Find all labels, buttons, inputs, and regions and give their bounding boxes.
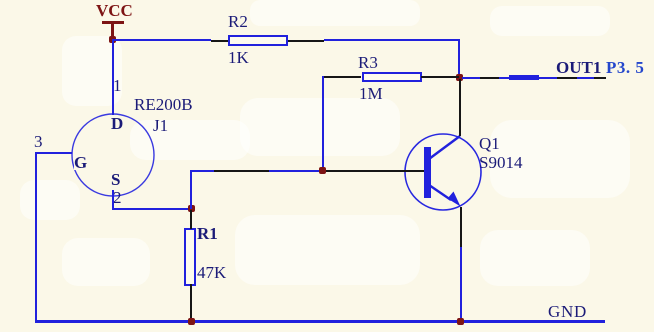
base pin <box>400 170 424 172</box>
wire R1 top pin <box>190 210 192 229</box>
resistor R3 <box>362 72 422 82</box>
label R3 <box>358 55 378 70</box>
wire base segment blue <box>269 170 322 172</box>
wire R3 left down to base node <box>322 76 324 171</box>
pin name S <box>111 172 120 187</box>
pin 2 stub wire (S) <box>112 190 114 209</box>
value 47K <box>197 265 226 280</box>
wire emitter to ground rail <box>460 247 462 323</box>
pin name D <box>111 116 123 131</box>
wire R2 left pin <box>211 40 229 42</box>
label R2 <box>228 14 248 29</box>
wire base segment black to Q1 <box>322 170 424 172</box>
wire VCC node to R2 <box>112 39 211 41</box>
wire down to OUT node <box>458 39 460 78</box>
wire R2 right pin <box>288 40 324 42</box>
junction dot at R1 top node <box>188 205 195 212</box>
wire blue segment under OUT1 <box>577 77 594 79</box>
resistor R2 <box>228 35 288 46</box>
port label OUT1 <box>556 60 601 75</box>
wire blue segment to OUT1 <box>539 77 557 79</box>
wire R1 bottom pin <box>190 284 192 322</box>
wire blue overlay segment <box>462 77 480 79</box>
transistor Q1 <box>400 130 490 220</box>
label R1 <box>197 226 218 241</box>
background patches (decorative) <box>250 0 420 26</box>
pin number 1 <box>113 78 122 93</box>
value S9014 <box>479 155 522 170</box>
junction dot Q1 emitter/ground <box>457 318 464 325</box>
sensor J1 RE200B body <box>68 110 160 202</box>
wire OUT node to port (black lead) <box>462 77 606 79</box>
designator J1 <box>153 118 168 133</box>
transistor body circle <box>405 134 481 210</box>
wire R3 right pin <box>421 76 459 78</box>
junction dot R1/ground <box>188 318 195 325</box>
emitter line <box>429 185 451 200</box>
pin number 2 <box>113 190 122 205</box>
wire base node vertical <box>190 171 192 209</box>
pin number 3 <box>34 134 43 149</box>
left vertical wire to ground rail <box>35 152 37 323</box>
wire emitter pin black <box>460 207 462 247</box>
wire base node to transistor (blue) <box>190 170 269 172</box>
wire R3 left pin <box>324 76 361 78</box>
value 1K <box>228 50 249 65</box>
net label P3.5 <box>606 60 644 75</box>
ground rail wire <box>35 320 605 323</box>
wire blue overlay segment 2 <box>499 77 509 79</box>
pin 3 wire (G) <box>35 152 72 154</box>
emitter arrow <box>448 192 461 207</box>
net label GND <box>548 304 587 319</box>
wire thick port segment <box>509 75 539 80</box>
junction dot at base/R3 node <box>319 167 326 174</box>
wire collector pin black <box>459 79 461 136</box>
resistor R1 <box>184 228 196 286</box>
junction dot at VCC node <box>109 36 116 43</box>
pin 1 wire (D) <box>112 41 114 115</box>
label RE200B <box>134 97 193 112</box>
power symbol VCC <box>96 3 133 18</box>
wire base segment black <box>214 170 269 172</box>
wire R2 to collector column <box>324 39 460 41</box>
designator Q1 <box>479 136 500 151</box>
pin name G <box>74 155 87 170</box>
base bar <box>424 147 431 198</box>
collector line <box>429 136 460 159</box>
junction dot at OUT node <box>456 74 463 81</box>
value 1M <box>359 86 383 101</box>
wire S pin to R1 node <box>112 208 192 210</box>
